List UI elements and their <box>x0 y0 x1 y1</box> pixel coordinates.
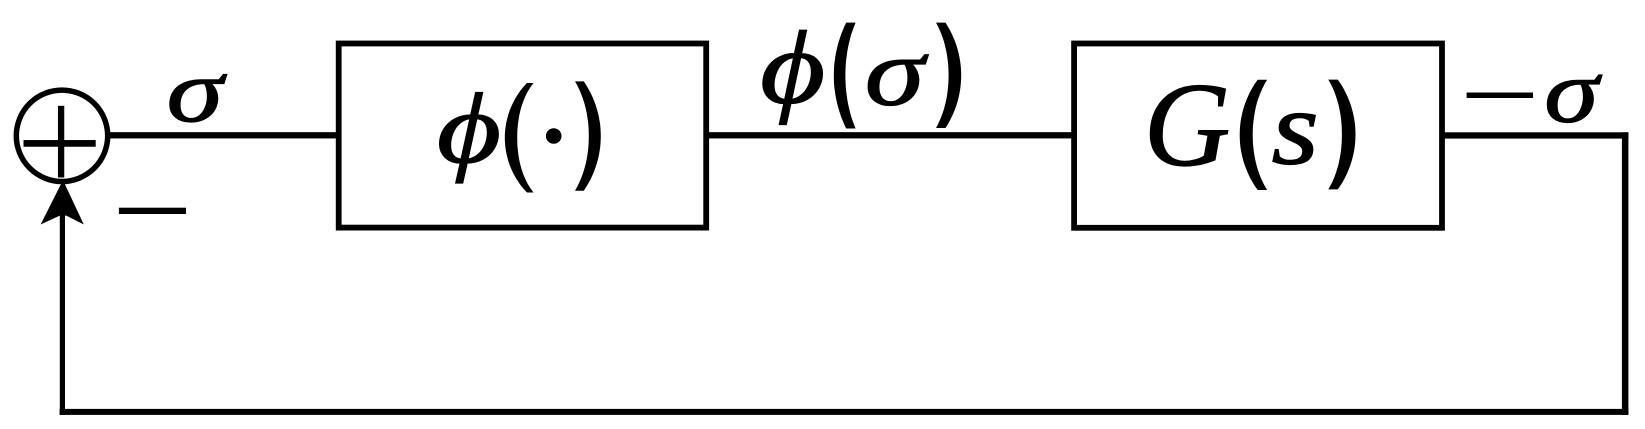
block phi(.) <box>339 44 707 228</box>
feedback arrowhead into summing junction <box>41 184 84 225</box>
block G(s) <box>1074 44 1442 228</box>
svg-text:G: G <box>1144 58 1231 191</box>
svg-text:σ: σ <box>1544 42 1602 142</box>
svg-text:ϕ: ϕ <box>437 74 501 184</box>
svg-text:s: s <box>1272 69 1319 187</box>
feedback wire right vertical segment <box>1622 132 1629 415</box>
minus label at feedback input <box>119 208 186 214</box>
feedback wire left vertical segment <box>60 213 65 415</box>
wire from G block to right corner <box>1442 132 1628 138</box>
block phi(.) label: right paren <box>575 81 601 190</box>
svg-text:ϕ: ϕ <box>760 10 825 125</box>
svg-text:σ: σ <box>167 41 227 141</box>
wire from summing junction to phi block <box>107 132 338 138</box>
wire label phi(sigma): right paren <box>936 23 961 128</box>
plus sign horizontal bar <box>24 140 96 147</box>
output label minus sign of -sigma <box>1467 93 1533 99</box>
block phi(.) label: left paren <box>505 83 534 193</box>
wire from phi block to G block <box>706 132 1074 138</box>
plus sign vertical bar <box>58 106 64 178</box>
feedback wire bottom horizontal segment <box>60 409 1629 415</box>
block phi(.) label: center dot <box>546 128 562 144</box>
block G(s) label: left paren <box>1240 80 1268 190</box>
svg-text:σ: σ <box>865 19 929 125</box>
wire label phi(sigma): left paren <box>834 23 856 129</box>
summing junction circle <box>16 90 107 181</box>
block G(s) label: right paren <box>1328 80 1355 190</box>
